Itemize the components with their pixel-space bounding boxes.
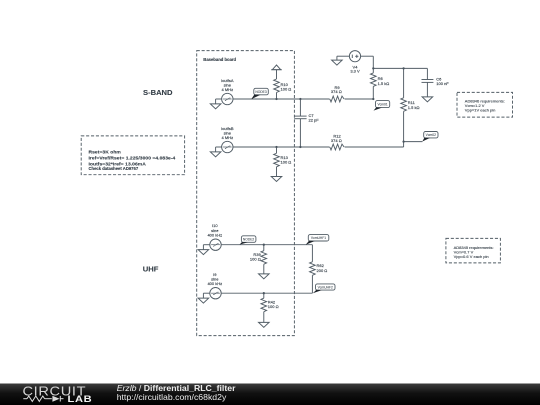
svg-text:Baseband board: Baseband board	[203, 57, 236, 62]
svg-text:Iref=Vref/Rset= 1.225/3000 =4.: Iref=Vref/Rset= 1.225/3000 =4.083e-4	[89, 155, 176, 161]
svg-text:400 kHz: 400 kHz	[207, 232, 222, 237]
svg-text:Check datasheet AD9767: Check datasheet AD9767	[89, 166, 139, 171]
svg-text:374 Ω: 374 Ω	[331, 89, 342, 94]
svg-text:100 Ω: 100 Ω	[281, 159, 292, 164]
svg-text:1.5 kΩ: 1.5 kΩ	[408, 105, 420, 110]
svg-text:NODE3: NODE3	[255, 90, 267, 94]
svg-text:Vpp=1V each pin: Vpp=1V each pin	[465, 108, 496, 113]
svg-text:200 Ω: 200 Ω	[317, 268, 328, 273]
svg-text:400 kHz: 400 kHz	[207, 281, 222, 286]
svg-text:4 MHz: 4 MHz	[222, 135, 234, 140]
svg-text:100 Ω: 100 Ω	[250, 257, 261, 262]
svg-text:NODE2: NODE2	[243, 237, 255, 241]
svg-text:Rset=3K ohm: Rset=3K ohm	[89, 150, 122, 156]
svg-text:VcmUHF2: VcmUHF2	[318, 285, 333, 289]
svg-text:VcmUHF1: VcmUHF1	[311, 236, 326, 240]
svg-text:4 MHz: 4 MHz	[222, 87, 234, 92]
svg-text:Vcm01: Vcm01	[377, 102, 387, 106]
svg-text:100 Ω: 100 Ω	[281, 87, 292, 92]
svg-text:S-BAND: S-BAND	[143, 88, 173, 97]
svg-text:374 Ω: 374 Ω	[331, 138, 342, 143]
svg-text:Vpp=0.6 V each pin: Vpp=0.6 V each pin	[454, 254, 489, 259]
svg-text:UHF: UHF	[143, 264, 159, 273]
svg-text:Vcm02: Vcm02	[426, 133, 436, 137]
svg-text:LAB: LAB	[68, 395, 93, 405]
svg-text:http://circuitlab.com/c68kd2y: http://circuitlab.com/c68kd2y	[117, 392, 227, 402]
svg-text:3.3 V: 3.3 V	[350, 69, 360, 74]
svg-text:22 pF: 22 pF	[309, 118, 320, 123]
svg-text:100 nF: 100 nF	[436, 81, 449, 86]
svg-text:1.5 kΩ: 1.5 kΩ	[378, 81, 390, 86]
svg-text:100 Ω: 100 Ω	[268, 304, 279, 309]
